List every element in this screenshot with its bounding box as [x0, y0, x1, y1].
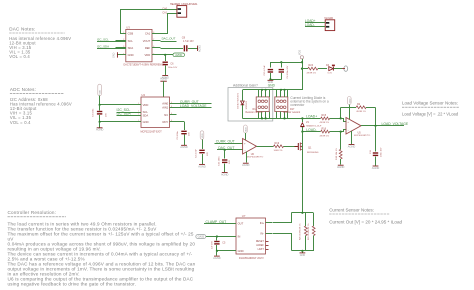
note: DAC Notes block [9, 26, 71, 59]
wire network bottom rail (LOAD+) [242, 117, 320, 119]
svg-text:NC: NC [164, 113, 168, 117]
svg-text:Resistor network: Resistor network [246, 111, 264, 114]
net label CURR_OUT (U6 +in) [215, 140, 243, 144]
net label CLAMP_OUT (U7 out) [204, 220, 229, 224]
svg-text:C2 4.7uF: C2 4.7uF [195, 148, 197, 158]
wire VDD vertical [301, 59, 303, 90]
svg-text:D3 BZT52C5V1: D3 BZT52C5V1 [238, 92, 240, 108]
net label LOAD_VOLTAGE (ADC AIN1) [176, 104, 211, 108]
net label I2C_SDA (U3) [97, 44, 126, 48]
ground AGND right of C8 (rotated) [198, 45, 202, 52]
net label I2C_SDA (ADC) [117, 112, 142, 116]
svg-text:6: 6 [153, 46, 154, 48]
svg-text:GND: GND [128, 53, 134, 57]
svg-text:4: 4 [123, 53, 124, 55]
ground AGND below C11 [372, 166, 380, 170]
ground GND below caps [268, 80, 274, 84]
svg-text:VOL = 0.4: VOL = 0.4 [10, 120, 31, 125]
svg-text:CSB: CSB [128, 32, 134, 36]
svg-text:VOUT: VOUT [143, 39, 151, 43]
wire shunt kelvin left bottom [273, 234, 292, 251]
svg-text:16V: 16V [188, 132, 190, 136]
svg-text:MCP3221A5T-E/OT: MCP3221A5T-E/OT [141, 130, 163, 133]
svg-text:AGND: AGND [180, 145, 188, 149]
svg-text:GND: GND [238, 249, 244, 253]
svg-text:SCL: SCL [128, 39, 134, 43]
svg-text:Controller Resolution:: Controller Resolution: [8, 210, 57, 215]
svg-text:R21 49.9R/1W 1%: R21 49.9R/1W 1% [308, 223, 310, 240]
supply VDD tag above U5 [348, 97, 352, 120]
ground AGND below U6 [242, 152, 250, 168]
svg-text:16V: 16V [229, 160, 231, 164]
ground AGND below R18 [337, 165, 345, 169]
svg-text:Additional Gain?: Additional Gain? [233, 83, 258, 87]
wire caps bottom rail [269, 78, 281, 80]
svg-text:1uF 16V: 1uF 16V [212, 241, 214, 249]
IC U7 current sense amplifier [229, 214, 272, 260]
svg-text:AGND: AGND [198, 164, 206, 168]
net label DAC_OUT (U6 -in) [217, 146, 243, 150]
svg-text:CA1: CA1 [145, 32, 151, 36]
ground AGND below C6 [161, 75, 169, 79]
svg-text:DAC_OUT: DAC_OUT [162, 36, 176, 40]
svg-text:IN: IN [238, 235, 241, 239]
capacitor C3 (ADC VDD bypass) [93, 105, 108, 122]
svg-text:7: 7 [153, 39, 154, 41]
svg-text:R16: R16 [322, 127, 327, 130]
svg-text:VDD: VDD [299, 50, 302, 55]
capacitor C2 (U6 supply bypass) [195, 148, 209, 164]
net label DAC_OUT (U3 VOUT) [160, 36, 176, 41]
svg-text:AIN0: AIN0 [162, 102, 168, 106]
net label I2C_SCL (U3) [97, 37, 126, 41]
svg-text:Resistor network: Resistor network [283, 111, 301, 114]
svg-text:49.9R 1%: 49.9R 1% [307, 73, 317, 75]
svg-text:VDD: VDD [202, 133, 204, 138]
capacitor C6 (U3 VDD bypass) [163, 55, 178, 75]
net label CURR_OUT (ADC AIN0) [176, 100, 211, 104]
net label LOAD+ (VLOAD) [305, 19, 325, 23]
svg-text:3: 3 [123, 46, 124, 48]
svg-text:GA05: GA05 [198, 236, 205, 239]
svg-text:DAC7571IDBVT 4.096V REFERENCE: DAC7571IDBVT 4.096V REFERENCE [124, 64, 165, 67]
svg-text:VOL = 0.4: VOL = 0.4 [9, 54, 30, 59]
svg-text:LIMIT: LIMIT [258, 248, 265, 251]
ground AGND below ADC bypass [96, 128, 104, 132]
resistor R18 [336, 132, 342, 165]
net label I2C_SCL (ADC) [117, 108, 142, 112]
resistor network RN2 [275, 90, 301, 119]
svg-text:AGND: AGND [160, 77, 167, 80]
svg-text:16V: 16V [207, 152, 209, 156]
transistor Q1 PMOS [295, 142, 319, 153]
svg-text:6: 6 [171, 113, 172, 115]
svg-text:MCP6001RT/TO: MCP6001RT/TO [354, 135, 371, 137]
svg-text:AIN1: AIN1 [162, 106, 168, 110]
resistor R16 [301, 127, 340, 137]
svg-text:Load Voltage [V] = .22 * VLoad: Load Voltage [V] = .22 * VLoad [402, 111, 459, 116]
ground AGND below C10 [221, 172, 229, 176]
svg-text:49.9R 1%: 49.9R 1% [320, 122, 330, 124]
svg-text:using negative feedback to dri: using negative feedback to drive the gat… [8, 281, 137, 286]
ground AGND above ADC [160, 77, 167, 97]
svg-text:5: 5 [153, 53, 154, 55]
ground GND below shunt [300, 251, 306, 257]
svg-text:U7: U7 [242, 214, 246, 218]
wire ADC GND pin [99, 121, 142, 128]
connector pad (ext diode) [342, 66, 348, 71]
svg-text:I2C_SDA: I2C_SDA [97, 44, 109, 48]
svg-text:R14: R14 [253, 108, 258, 111]
diode D3 [238, 90, 249, 119]
svg-text:MCP6001RT/TO: MCP6001RT/TO [247, 157, 264, 159]
zener Z1 [301, 118, 322, 131]
svg-text:VDD: VDD [245, 127, 247, 132]
svg-text:6: 6 [171, 102, 172, 104]
svg-text:connector: connector [290, 103, 305, 107]
svg-text:AGND: AGND [221, 172, 229, 176]
svg-text:SDA: SDA [143, 113, 149, 117]
svg-text:INA185A2IDRLT 20V/V: INA185A2IDRLT 20V/V [239, 257, 264, 260]
op-amp U6 [243, 139, 264, 159]
svg-text:A2REF: A2REF [256, 244, 264, 247]
resistor R15 [320, 114, 341, 124]
svg-text:AGND: AGND [199, 45, 202, 52]
diode D4 [326, 64, 342, 74]
net label LOAD- (VLOAD) [305, 23, 325, 27]
svg-text:CA1: CA1 [162, 12, 167, 15]
note: Load Voltage Sensor Notes [402, 100, 459, 116]
resistor R24 [302, 64, 327, 74]
supply VDD tag (U6 bypass) [200, 131, 204, 149]
resistor R19 (gate drive) [257, 142, 298, 152]
svg-text:R18 10k 1%: R18 10k 1% [336, 148, 338, 160]
svg-text:16V: 16V [105, 113, 107, 117]
svg-text:GND: GND [143, 120, 149, 124]
svg-text:100R 1%: 100R 1% [274, 150, 283, 152]
svg-text:I2C_SCL: I2C_SCL [97, 37, 109, 41]
svg-text:Load Voltage Sensor Notes:: Load Voltage Sensor Notes: [402, 100, 458, 105]
svg-text:GND: GND [300, 254, 306, 257]
ground AGND below C2 [198, 164, 206, 168]
capacitor C15 [264, 62, 273, 79]
resistor R21 shunt [308, 213, 315, 251]
wire Q1 drain/source vertical [302, 132, 304, 213]
op-amp U5 [340, 118, 371, 138]
svg-text:GND: GND [268, 83, 276, 87]
svg-text:5.1V: 5.1V [328, 72, 333, 74]
svg-text:U4: U4 [141, 93, 145, 97]
ground AGND below C5 [213, 256, 221, 260]
wire network top rail [242, 89, 302, 91]
capacitor C9 on ADC RDY pin [176, 122, 190, 145]
svg-text:SMAZ5V1-13-F: SMAZ5V1-13-F [306, 124, 322, 127]
resistor network RN1 [246, 90, 270, 119]
svg-text:REF: REF [145, 46, 151, 50]
svg-text:AGND: AGND [213, 256, 221, 260]
svg-text:C4 100n 16V: C4 100n 16V [287, 65, 289, 78]
svg-text:8: 8 [153, 32, 154, 34]
wire U5 output [361, 125, 404, 127]
svg-text:LOAD_VOLTAGE: LOAD_VOLTAGE [382, 122, 409, 126]
supply VDD symbol (top) [299, 50, 304, 59]
svg-text:49.9R 1%: 49.9R 1% [356, 111, 366, 113]
svg-text:SDA: SDA [128, 46, 134, 50]
supply AVDD oval on U3 VDD [160, 53, 184, 57]
svg-text:AVDD: AVDD [175, 53, 182, 57]
svg-text:OUT: OUT [238, 222, 244, 226]
note: ADC Notes block [10, 87, 72, 125]
wire U7 GND [216, 250, 230, 256]
connector VLOAD header [324, 16, 335, 30]
resistor R20 shunt [299, 213, 307, 251]
svg-text:R24: R24 [309, 64, 314, 67]
svg-text:R15: R15 [322, 114, 327, 117]
ground AGND below U5 [348, 131, 356, 148]
svg-text:1: 1 [123, 32, 124, 34]
wire shunt top rail [292, 212, 314, 214]
svg-text:100n 16V: 100n 16V [381, 147, 383, 157]
svg-text:AGND: AGND [242, 163, 250, 167]
svg-text:RDY: RDY [163, 120, 169, 124]
svg-text:ADC Notes:: ADC Notes: [10, 87, 36, 92]
wire shunt kelvin left top [273, 213, 292, 223]
ground AGND below C9 [180, 145, 188, 149]
wire VDD to ADC [99, 104, 142, 106]
svg-text:IN-: IN- [260, 232, 264, 236]
svg-text:IN+: IN+ [260, 221, 265, 225]
svg-text:SOD123: SOD123 [246, 100, 248, 109]
svg-text:AGND: AGND [337, 165, 345, 169]
capacitor C8 on REF [160, 36, 197, 52]
svg-text:4.7uF 16V: 4.7uF 16V [183, 41, 194, 43]
svg-text:The maximum offset for the cur: The maximum offset for the current senso… [8, 231, 194, 236]
svg-text:DAC Notes:: DAC Notes: [9, 26, 35, 31]
supply VDD tag above U6 [244, 125, 248, 140]
note: Current Sensor Notes [329, 207, 402, 224]
svg-text:6: 6 [171, 120, 172, 122]
wire header pin1 to U3 CSB [121, 10, 177, 34]
svg-text:49.9R 1%: 49.9R 1% [320, 135, 330, 137]
wire VDD to caps rail [270, 62, 302, 64]
capacitor C4 [279, 61, 290, 79]
svg-text:AGND: AGND [372, 166, 380, 170]
note: Controller Resolution block [8, 210, 196, 286]
svg-text:C10 100n: C10 100n [219, 156, 221, 166]
capacitor C10 on DAC_OUT net [219, 149, 231, 172]
svg-text:100n 16V: 100n 16V [168, 67, 178, 69]
svg-text:RESET: RESET [256, 240, 265, 243]
svg-text:AGND: AGND [96, 128, 104, 132]
supply VDD tag above ADC bypass [98, 84, 102, 105]
IC U4 ADC [135, 93, 177, 133]
svg-text:IRF9540NS: IRF9540NS [307, 152, 319, 154]
svg-text:VDD: VDD [145, 53, 151, 57]
IC U3 DAC [115, 25, 165, 66]
svg-text:C8: C8 [182, 36, 186, 40]
svg-text:GND: GND [113, 52, 116, 58]
svg-text:R19: R19 [275, 142, 280, 145]
capacitor C5 (U7 in filter) [212, 235, 226, 251]
capacitor C11 on U5 output [370, 126, 383, 166]
note: Current Limiting Diode note [290, 96, 328, 107]
svg-text:VDD: VDD [349, 98, 351, 103]
svg-text:C3 100n: C3 100n [93, 108, 95, 117]
svg-text:R17: R17 [290, 108, 295, 111]
connector J1 HEADER_1X02 [162, 3, 198, 17]
svg-text:2: 2 [123, 39, 124, 41]
svg-text:C9 100n: C9 100n [177, 130, 179, 139]
svg-text:Current Out [V] = 20 * 24.95 *: Current Out [V] = 20 * 24.95 * ILoad [329, 219, 402, 224]
svg-text:Current Sensor Notes:: Current Sensor Notes: [329, 207, 374, 212]
wire shunt bottom rail [292, 250, 314, 252]
ground GND at U3 GND pin [113, 52, 120, 58]
wire header pin2 to U3 CA1 [161, 14, 177, 34]
svg-text:VDD: VDD [143, 103, 149, 107]
svg-text:U3: U3 [126, 25, 130, 29]
label GA05 oval [196, 235, 230, 239]
svg-text:6: 6 [171, 106, 172, 108]
svg-text:C15 4.7uF: C15 4.7uF [264, 65, 266, 76]
resistor R2 feedback [340, 103, 376, 126]
box Additional Gain [228, 88, 273, 121]
svg-text:VDD: VDD [100, 89, 102, 94]
svg-text:LOAD+: LOAD+ [306, 114, 317, 118]
svg-text:R20 49.9R/1W 1%: R20 49.9R/1W 1% [299, 223, 301, 240]
svg-text:AGND: AGND [348, 144, 356, 148]
